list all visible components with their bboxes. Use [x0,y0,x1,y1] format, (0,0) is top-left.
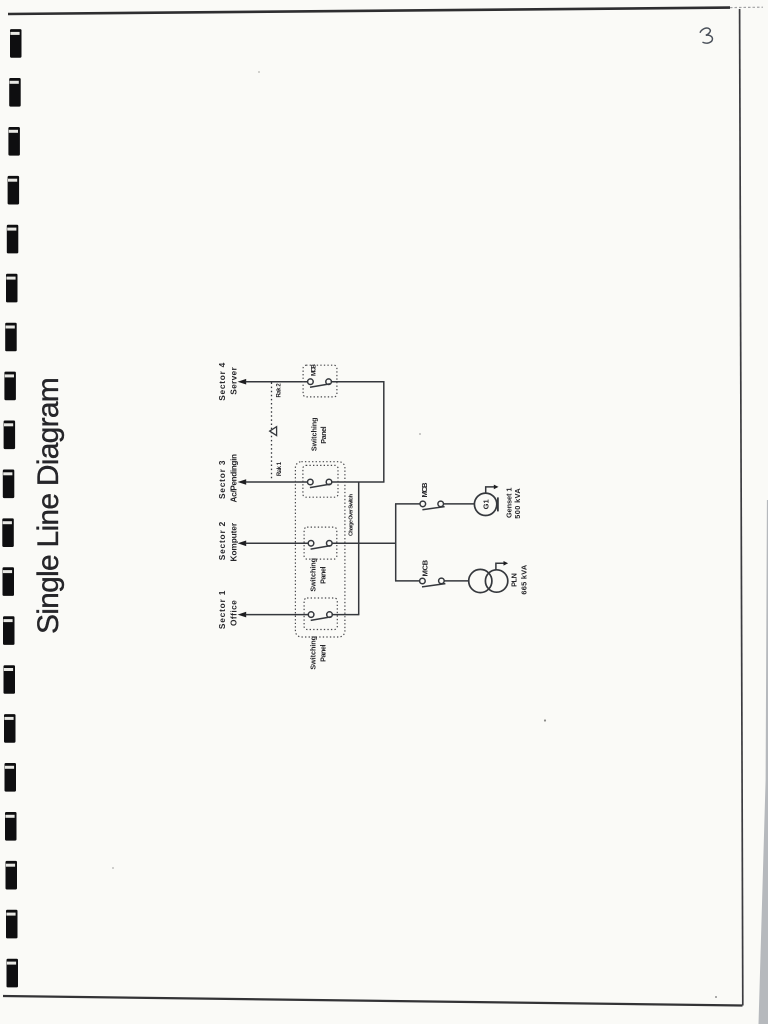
svg-text:500 kVA: 500 kVA [513,488,522,519]
breaker CB4 circle b [326,379,332,385]
wire sector4 to corner [331,381,383,383]
wire corner down to sector3 line [383,381,385,482]
svg-text:Rak 1: Rak 1 [277,461,283,476]
node Sector1 arrow [238,612,247,618]
wire sector1 to link [332,614,359,616]
panel box sector1 switch [304,598,337,630]
breaker CB3 circle a [308,479,314,485]
node Sector4 arrow [238,379,247,385]
svg-text:MCB: MCB [311,364,318,376]
wire sector3 to corner [332,481,385,483]
svg-text:Single Line Diagram: Single Line Diagram [32,377,65,634]
breaker CB3 blade [310,484,331,488]
svg-text:Sector 4: Sector 4 [217,362,227,400]
right scanner shadow [759,500,768,1024]
breaker MCB-PLN circle b [439,578,445,584]
wire sector1 feeder [246,614,309,616]
breaker CB2 circle a [308,541,314,547]
svg-text:Server: Server [229,366,239,394]
handwritten page number 3 [700,28,712,43]
svg-text:Sector 3: Sector 3 [217,460,227,499]
svg-text:Panel: Panel [318,567,327,584]
spiral binding marks [2,29,21,987]
panel box changeover outer [295,462,345,637]
svg-text:Panel: Panel [318,645,327,662]
svg-text:Office: Office [229,600,239,626]
svg-text:MCB: MCB [421,559,430,576]
wire sector4 feeder [246,381,308,383]
wire bus to genset MCB [395,503,420,505]
node Sector2 arrow [238,541,247,547]
breaker MCB-genset circle a [420,501,426,507]
wire changeover link vertical [358,482,360,615]
node Sector3 arrow [238,479,247,485]
transformer PLN winding 2 [485,570,507,592]
dust specks [544,719,546,721]
generator G1 terminal bar [497,497,499,511]
paper right edge [740,9,743,1006]
wire sector3 feeder [246,481,308,483]
svg-text:PLN: PLN [510,573,519,587]
svg-text:Ac/Pendingin: Ac/Pendingin [229,454,239,503]
transformer PLN arrow [496,563,504,570]
panel box sector3 switch [303,465,338,497]
breaker CB3 circle b [326,479,332,485]
svg-text:Sector 2: Sector 2 [217,521,227,560]
svg-text:Switching: Switching [310,417,319,451]
breaker CB4 blade [310,384,330,388]
breaker MCB-genset blade [422,507,444,510]
breaker CB4 circle a [308,379,314,385]
rak tie open triangle [270,427,277,436]
panel box sector2 switch [304,527,337,559]
paper bottom edge [3,996,743,1006]
svg-text:Switching: Switching [309,636,318,670]
svg-text:Komputer: Komputer [229,522,239,561]
panel box MCB sector4 [303,365,337,397]
rak tie dotted line [271,383,273,479]
wire sector2 to bus [332,542,396,544]
svg-text:Switching: Switching [309,558,318,592]
breaker CB1 circle a [308,612,314,618]
svg-text:Charge Over Switch: Charge Over Switch [349,493,355,536]
wire MCB to transformer [444,580,469,582]
wire MCB to genset [444,503,475,505]
svg-text:Rak 2: Rak 2 [277,383,283,398]
wire main bus vertical [395,504,397,581]
breaker MCB-PLN blade [422,584,445,587]
breaker MCB-genset circle b [438,501,444,507]
generator G1 circle [474,493,496,515]
wire bus to PLN MCB [395,580,420,582]
breaker CB1 circle b [327,612,333,618]
paper top edge [8,8,730,14]
wire sector2 feeder [246,542,309,544]
breaker MCB-PLN circle a [420,578,426,584]
svg-text:Sector 1: Sector 1 [217,590,227,629]
breaker CB2 blade [311,546,332,550]
generator G1 arrow [486,487,494,494]
svg-text:G1: G1 [481,498,490,509]
dotted enclosures [295,365,345,637]
breaker CB2 circle b [327,541,333,547]
svg-text:MCB: MCB [420,482,429,498]
svg-text:665 kVA: 665 kVA [519,564,528,594]
transformer PLN winding 1 [469,569,492,592]
svg-text:Panel: Panel [319,426,328,443]
breaker CB1 blade [311,617,332,621]
